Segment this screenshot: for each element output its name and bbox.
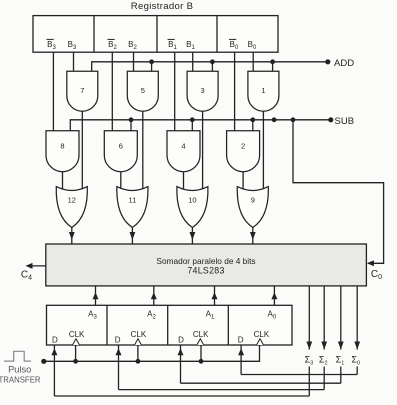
arrowhead C0 input — [367, 260, 374, 266]
wire AND3 ADD riser — [211, 62, 213, 72]
AND gate 4 — [167, 131, 200, 172]
arrowhead A1 output — [212, 292, 218, 299]
wire B3 to AND gate 7 — [73, 52, 75, 71]
wire AND8 output to OR12 left input — [62, 172, 64, 190]
arrowhead OR11 output — [130, 232, 136, 240]
node SUB rail junction — [272, 117, 277, 122]
svg-text:2: 2 — [241, 142, 245, 151]
svg-text:10: 10 — [188, 196, 196, 205]
wire sigma3 output from adder — [308, 286, 310, 350]
AND gate 3 — [187, 71, 218, 111]
wire D riser of flip-flop A3 — [53, 345, 55, 396]
wire AND1 ADD riser — [272, 62, 274, 72]
arrowhead OR10 output — [190, 232, 196, 240]
OR gate 11 — [117, 187, 148, 228]
svg-text:CLK: CLK — [193, 330, 209, 339]
wire AND6 SUB riser — [130, 120, 132, 131]
svg-text:7: 7 — [80, 86, 84, 95]
wire B0 to AND gate 1 — [252, 52, 254, 71]
svg-text:SUB: SUB — [335, 116, 355, 127]
register B cell divider 3 — [216, 16, 218, 53]
arrowhead D input A2 — [116, 348, 122, 355]
wire sigma1 output from adder — [340, 286, 342, 350]
wire sigma0 feedback to D of A0 — [241, 374, 357, 376]
wire TRANSFER rail — [44, 345, 260, 361]
wire AND7 output to OR12 right input — [81, 111, 83, 189]
node SUB-AND4 junction — [190, 117, 195, 122]
AND gate 2 — [227, 131, 260, 172]
AND gate 1 — [248, 71, 279, 111]
wire AND2 SUB riser — [252, 120, 254, 131]
svg-text:D: D — [238, 336, 244, 345]
register A box — [47, 305, 293, 345]
wire CLK riser A1 — [200, 345, 202, 361]
wire OR11 output to adder — [131, 228, 133, 245]
svg-text:12: 12 — [68, 196, 76, 205]
svg-text:3: 3 — [201, 86, 205, 95]
register B cell divider 1 — [93, 16, 95, 53]
svg-text:1: 1 — [261, 86, 265, 95]
flip-flop A1 clock wedge — [197, 339, 204, 345]
arrowhead D input A0 — [238, 348, 244, 355]
wire AND3 output to OR10 right input — [202, 111, 204, 189]
wire B-bar2 to AND gate 6 — [111, 52, 113, 131]
wire D riser of flip-flop A2 — [118, 345, 120, 390]
pulse waveform symbol — [4, 351, 31, 361]
OR gate 12 — [56, 187, 87, 228]
wire B-bar0 to AND gate 2 — [234, 52, 236, 131]
arrowhead C4 output — [26, 263, 33, 269]
arrowhead sigma1 — [338, 342, 344, 350]
node TRANSFER-CLK A1 junction — [199, 359, 204, 364]
wire AND4 output to OR10 left input — [183, 172, 185, 190]
svg-text:Registrador B: Registrador B — [131, 1, 194, 12]
adder U1 74LS283 box — [46, 244, 367, 286]
wire sigma0 feedback stub — [356, 367, 358, 375]
arrowhead D input A1 — [178, 348, 184, 355]
arrowhead sigma0 — [354, 342, 360, 350]
register A cell divider 2 — [167, 305, 169, 345]
wire AND4 SUB riser — [191, 120, 193, 131]
node SUB terminal — [328, 117, 333, 122]
wire D riser of flip-flop A1 — [180, 345, 182, 383]
wire AND5 ADD riser — [151, 62, 153, 72]
node ADD-AND3 junction — [210, 59, 215, 64]
wire D riser of flip-flop A0 — [240, 345, 242, 375]
wire A2 output to adder — [153, 286, 155, 305]
node SUB-AND2 junction — [250, 117, 255, 122]
wire AND6 output to OR11 left input — [120, 172, 122, 190]
arrowhead sigma2 — [321, 342, 327, 350]
wire sigma0 output from adder — [356, 286, 358, 350]
wire AND1 output to OR9 right input — [262, 111, 264, 189]
register A cell divider 3 — [227, 305, 229, 345]
wire sigma1 feedback stub — [340, 367, 342, 384]
svg-text:D: D — [52, 336, 58, 345]
node TRANSFER-CLK A2 junction — [136, 359, 141, 364]
wire CLK riser A2 — [137, 345, 139, 361]
svg-text:6: 6 — [119, 142, 123, 151]
wire sigma2 output from adder — [323, 286, 325, 350]
node SUB-AND6 junction — [129, 117, 134, 122]
wire B-bar3 to AND gate 8 — [52, 52, 54, 131]
node TRANSFER terminal — [41, 359, 46, 364]
wire CLK riser A3 — [75, 345, 77, 361]
svg-text:4: 4 — [181, 142, 185, 151]
wire sigma3 feedback stub — [308, 367, 310, 397]
arrowhead A0 output — [271, 292, 277, 299]
svg-text:5: 5 — [141, 86, 145, 95]
wire OR9 output to adder — [252, 228, 254, 245]
node TRANSFER-CLK A3 junction — [73, 359, 78, 364]
OR gate 9 — [237, 187, 268, 228]
wire ADD rail — [92, 62, 328, 72]
node ADD-AND5 junction — [149, 59, 154, 64]
svg-text:CLK: CLK — [254, 330, 270, 339]
arrowhead D input A3 — [51, 348, 57, 355]
arrowhead OR12 output — [69, 232, 75, 240]
wire B2 to AND gate 5 — [133, 52, 135, 71]
arrowhead sigma3 — [306, 342, 312, 350]
svg-text:74LS283: 74LS283 — [187, 265, 224, 275]
AND gate 6 — [104, 131, 137, 172]
svg-text:Pulso: Pulso — [8, 365, 31, 375]
register A cell divider 1 — [106, 305, 108, 345]
arrowhead A2 output — [151, 292, 157, 299]
flip-flop A2 clock wedge — [135, 339, 142, 345]
svg-text:TRANSFER: TRANSFER — [0, 376, 41, 385]
register B cell divider 2 — [156, 16, 158, 53]
wire OR10 output to adder — [191, 228, 193, 245]
arrowhead OR9 output — [250, 232, 256, 240]
wire A0 output to adder — [273, 286, 275, 305]
OR gate 10 — [177, 187, 208, 228]
svg-text:D: D — [178, 336, 184, 345]
wire sigma1 feedback to D of A1 — [181, 382, 341, 384]
AND gate 7 — [67, 71, 98, 111]
svg-text:D: D — [115, 336, 121, 345]
svg-text:CLK: CLK — [131, 330, 147, 339]
register B box — [33, 16, 278, 53]
flip-flop A3 clock wedge — [73, 339, 80, 345]
wire B1 to AND gate 3 — [192, 52, 194, 71]
svg-text:11: 11 — [129, 196, 137, 205]
wire SUB to C0 route — [293, 120, 384, 263]
node ADD-AND1 junction — [270, 59, 275, 64]
svg-text:ADD: ADD — [334, 58, 354, 69]
node ADD terminal — [325, 59, 330, 64]
node SUB to C0 junction — [291, 117, 296, 122]
wire A3 output to adder — [95, 286, 97, 305]
wire sigma2 feedback stub — [323, 367, 325, 390]
wire OR12 output to adder — [71, 228, 73, 245]
wire SUB rail — [70, 120, 331, 131]
wire sigma2 feedback to D of A2 — [119, 389, 325, 391]
svg-text:8: 8 — [60, 142, 64, 151]
wire B-bar1 to AND gate 4 — [174, 52, 176, 131]
arrowhead A3 output — [93, 292, 99, 299]
wire AND5 output to OR11 right input — [142, 111, 144, 189]
svg-text:9: 9 — [251, 196, 255, 205]
wire C4 output — [27, 265, 46, 267]
AND gate 8 — [46, 131, 79, 172]
wire A1 output to adder — [214, 286, 216, 305]
AND gate 5 — [127, 71, 158, 111]
flip-flop A0 clock wedge — [257, 339, 264, 345]
wire sigma3 feedback to D of A3 — [54, 395, 309, 397]
wire AND2 output to OR9 left input — [242, 172, 244, 190]
svg-text:CLK: CLK — [69, 330, 85, 339]
